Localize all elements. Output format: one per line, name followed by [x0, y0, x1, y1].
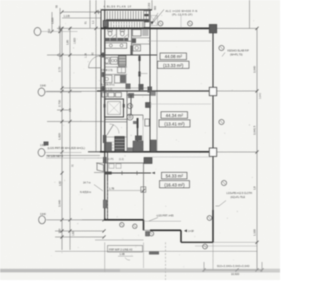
- faint line y221 right of step: [144, 220, 182, 222]
- circle tag bottom a: [120, 223, 124, 227]
- right subroom box B: [133, 45, 141, 51]
- circle tag right a: [219, 45, 224, 50]
- bottom dim ext a: [203, 262, 205, 272]
- ext line y12: [62, 11, 101, 13]
- extension line above core wall: [104, 0, 106, 10]
- elevator car inner: [108, 102, 121, 115]
- wall x143.5 lower room: [143, 163, 145, 220]
- scan shadow band bottom: [0, 269, 280, 273]
- dimension line left x62: [61, 27, 63, 250]
- leader LGS bottom: [149, 218, 158, 222]
- wall y173 small room: [105, 172, 151, 174]
- dashed x107: [107, 181, 109, 220]
- ext y28.4 right: [213, 27, 257, 29]
- wall y28.4 full: [101, 27, 213, 29]
- dimension line left x70: [69, 27, 71, 250]
- wall core top y10: [101, 9, 152, 11]
- gray marks right of box A: [142, 30, 148, 37]
- dim tick right: [255, 241, 258, 244]
- light line y240 bottom-left: [95, 239, 144, 241]
- arrowhead y55 left: [57, 53, 60, 55]
- dim tick: [60, 10, 63, 13]
- arrow at right end of wall y173: [152, 172, 156, 174]
- dim tick: [50, 30, 53, 33]
- wall core left x101: [100, 10, 102, 152]
- white box on corridor wall y119: [145, 119, 150, 126]
- bottom dimension line y270: [204, 269, 262, 271]
- leader line top annotation: [154, 10, 165, 23]
- dim tick: [60, 108, 63, 111]
- ext y242.3 right: [213, 241, 257, 243]
- toilet stall wall b: [128, 29, 130, 38]
- underline net text: [46, 157, 104, 159]
- column box x213 y148.0: [209, 148, 216, 156]
- toilet fixture 2: [120, 31, 124, 36]
- grid line y220 left: [47, 219, 104, 221]
- faint line y104 room2: [150, 103, 211, 105]
- door arc lower room: [110, 124, 120, 134]
- corridor band line y163: [105, 162, 152, 164]
- lower-left box with circle: [104, 75, 113, 82]
- wall corridor right x157: [156, 28, 158, 152]
- small marks x133 y121: [133, 121, 137, 124]
- ext y91 right: [213, 90, 257, 92]
- dim tick: [68, 53, 71, 56]
- door jamb tick x122: [121, 171, 123, 175]
- dark marks left edge: [130, 46, 132, 55]
- basin 1: [109, 44, 112, 47]
- column box x213 top dark: [209, 25, 216, 33]
- ext line y88: [62, 87, 150, 89]
- dim tick: [60, 218, 63, 221]
- dim tick: [60, 150, 63, 153]
- circle tag right b: [219, 119, 224, 124]
- dark segment on wall x104 y200: [103, 200, 106, 208]
- faint vertical leader x181: [180, 14, 182, 28]
- EV door marks: [104, 104, 106, 108]
- paper grain noise: [0, 0, 1, 1]
- circle tag bottom c: [149, 232, 153, 236]
- wall x131: [130, 95, 132, 115]
- circle tag near top wall: [158, 21, 163, 26]
- ext line y28.4 left: [57, 27, 101, 29]
- tick line y110: [57, 109, 70, 111]
- dark blob y83 x125: [126, 84, 131, 90]
- ext y152 right: [213, 151, 257, 153]
- corridor segment y91: [151, 92, 156, 96]
- ext below x104.7: [104, 242, 106, 272]
- dark fitting band under stalls: [105, 38, 129, 41]
- circle tag top mid: [188, 21, 193, 26]
- wall y91: [97, 90, 213, 92]
- subroom line y37.8: [132, 37, 151, 39]
- circle tag bottom d: [207, 216, 212, 221]
- area label room2 tsubo: [159, 120, 190, 127]
- ext line y172.5 short: [94, 172, 104, 174]
- leader right annotation1: [222, 53, 225, 57]
- area label room2 m2: [161, 112, 188, 119]
- dim tick right: [255, 150, 258, 153]
- door arc exterior left: [89, 56, 102, 68]
- light vertical x143.5 bottom: [143, 243, 145, 269]
- dim tick: [60, 235, 63, 238]
- stair dark block left: [103, 21, 108, 28]
- area label room1 tsubo: [158, 61, 190, 68]
- circle tag EV b (double): [127, 114, 133, 120]
- faint box above y163 b: [116, 164, 121, 169]
- dim tick: [60, 171, 63, 174]
- wall right x213: [212, 28, 214, 210]
- toilet stall wall a: [116, 29, 118, 38]
- staircase upper flight: [105, 11, 149, 19]
- small box y67: [118, 67, 126, 73]
- grid line y121.5: [47, 121, 104, 123]
- wall y152: [100, 151, 213, 153]
- dim line y231: [55, 230, 104, 232]
- small dark box x146 y103: [146, 103, 151, 108]
- partition line y119.3: [105, 118, 127, 120]
- wall dark segment y176: [105, 172, 112, 175]
- dim tick: [60, 53, 63, 56]
- stair landing dark dash a: [144, 14, 149, 16]
- light line y73.5 right of kitchen: [140, 73, 148, 75]
- area label room3 tsubo: [160, 181, 190, 188]
- wall stub y152 left: [88, 151, 100, 153]
- leader right annotation2: [219, 201, 226, 207]
- dimension line right x257: [256, 28, 258, 270]
- dim tick: [68, 218, 71, 221]
- toilet fixture 1: [108, 31, 112, 36]
- vanity counter: [105, 43, 127, 49]
- wall y55 core: [101, 54, 157, 56]
- dim tick: [94, 10, 97, 13]
- wall dark segment x101 y72: [102, 72, 106, 77]
- grid line y91 left: [46, 90, 101, 92]
- dim tick: [94, 27, 97, 30]
- door jamb tick x137: [136, 171, 138, 175]
- line y95 right of EV: [127, 94, 150, 96]
- cross mark: [97, 11, 101, 13]
- grid line y55 left: [47, 54, 104, 56]
- corridor segment y140: [151, 140, 157, 152]
- wall dark segment x104 y158: [103, 157, 107, 163]
- dim tick right: [255, 268, 258, 271]
- stair up arrow: [112, 23, 132, 25]
- text blob y147: [128, 148, 134, 152]
- dim 1.7B line: [108, 190, 144, 192]
- subroom line y44: [132, 43, 151, 45]
- small filled triangle marker: [151, 22, 154, 25]
- ext line y163 short: [96, 162, 104, 164]
- faint line y41 room1: [148, 40, 211, 42]
- wall core left inner x104.7: [104, 10, 106, 220]
- right subroom box A: [133, 30, 142, 37]
- dark blob y135: [135, 136, 142, 141]
- toilet tank 2: [120, 30, 124, 32]
- dim tick: [60, 120, 63, 123]
- stair landing right box: [144, 11, 150, 27]
- staircase mid rail dark bar: [106, 19, 149, 21]
- dim tick: [68, 90, 71, 93]
- short wall x143 y115-120: [142, 115, 144, 120]
- door gap y230: [144, 229, 151, 231]
- faint line y157 room3: [152, 156, 211, 158]
- staircase lower flight: [106, 22, 145, 28]
- column box x213 y87.3: [209, 87, 216, 95]
- core partition x127: [126, 90, 128, 152]
- dark blob y84 left: [139, 84, 144, 90]
- bottom-left note box: [108, 246, 143, 253]
- faint vertical x143: [142, 120, 144, 152]
- dark mark band: [44, 142, 49, 146]
- toilet partition line y41: [105, 40, 132, 42]
- grid bubble Y1: [34, 28, 77, 36]
- area label room1 m2: [160, 53, 187, 60]
- extension line x96: [95, 0, 97, 152]
- dim tick: [99, 53, 102, 56]
- faint hatch left of strip: [106, 142, 114, 151]
- underline 1.0B: [118, 255, 133, 257]
- scan speckles: [47, 13, 255, 268]
- dimension line left x52 top: [51, 12, 53, 32]
- dim tick: [68, 120, 71, 123]
- grid bubble Y2: [38, 88, 81, 96]
- faint box above y163 a: [109, 164, 114, 169]
- wall step vertical x181: [180, 230, 182, 242]
- dim tick: [102, 235, 105, 238]
- dark blob below step gap: [146, 232, 150, 237]
- kitchen line y74: [105, 73, 127, 75]
- wall x139.5 kitchen-right: [139, 55, 141, 91]
- wall y242.3: [181, 241, 213, 243]
- dim tick: [68, 27, 71, 30]
- dim tick: [68, 229, 71, 232]
- small curl mark: [125, 258, 130, 261]
- circle tag right c: [221, 180, 226, 185]
- dashed line x165.5 bottom: [165, 242, 167, 280]
- ext line y18: [62, 17, 101, 19]
- wall dark segment x101 y52: [102, 53, 106, 58]
- dim line y237: [55, 236, 104, 238]
- kitchen shelf cluster: [119, 56, 127, 66]
- partition line y121.8: [105, 121, 127, 123]
- faint y246 right: [195, 245, 257, 247]
- wall dark segment x101 y86: [102, 86, 106, 91]
- ext below x213: [212, 242, 214, 270]
- hoist box with X brace (faint): [151, 16, 158, 26]
- dim tick: [102, 218, 105, 221]
- elevator shaft outer: [105, 99, 124, 117]
- wall inner leaf x107.5 lower: [107, 152, 109, 220]
- circle tag EV a: [127, 103, 132, 108]
- stall doors: [112, 35, 116, 38]
- circle tag bottom e: [203, 244, 208, 249]
- stair landing dark dash b: [144, 19, 149, 22]
- wall right x213 dark lower: [212, 210, 214, 242]
- dim tick: [58, 30, 61, 33]
- dark bit right of lockers: [128, 93, 134, 98]
- door trapezoid: [97, 163, 104, 172]
- dim tick: [60, 229, 63, 232]
- dark dash x149 y252: [149, 252, 159, 255]
- locker row: [102, 93, 107, 98]
- lower cluster dark right: [115, 75, 127, 83]
- faint line y251: [55, 250, 257, 252]
- wall core right x150: [149, 10, 151, 152]
- dark hatched strip core bottom: [115, 137, 125, 153]
- wall dark segment x104 y135: [103, 135, 107, 143]
- light line y137: [105, 136, 127, 138]
- wall y220 bottom-left: [104, 219, 144, 221]
- dark cluster y38: [132, 39, 136, 44]
- line y115: [127, 114, 143, 116]
- kitchen line y67: [105, 66, 127, 68]
- underline above core: [100, 8, 152, 10]
- dim tick right: [255, 27, 258, 30]
- basin 2: [120, 44, 123, 47]
- dense block band c: [133, 141, 143, 152]
- leader small room: [94, 185, 103, 192]
- circle tag bottom b: [133, 224, 137, 228]
- dimension line left x60 top: [59, 8, 61, 60]
- wall step vertical x143.5: [143, 220, 145, 231]
- dark blob y86 right: [148, 87, 153, 93]
- ext line x152 top: [151, 0, 153, 10]
- dim tick: [102, 229, 105, 232]
- grid line y155 left: [47, 155, 100, 157]
- wall y230.3: [150, 229, 181, 231]
- small box on x143 wall: [141, 187, 146, 193]
- kitchen sink fixture: [104, 58, 109, 65]
- extension line x90 top: [89, 0, 91, 28]
- dark box y158 corridor band: [144, 158, 152, 164]
- grid bubble Y4: [39, 216, 82, 224]
- kitchen stove unit: [111, 57, 118, 64]
- heavy wall x137.5: [137, 118, 139, 152]
- dim tick: [60, 90, 63, 93]
- dim tick: [60, 27, 63, 30]
- arrow marker 1-3F: [184, 229, 187, 232]
- toilet tank 1: [108, 30, 112, 32]
- dense block band a: [106, 143, 112, 152]
- toilet block right partition: [131, 29, 133, 55]
- extension line top right: [249, 0, 251, 28]
- dim tick: [60, 86, 63, 89]
- dim tick right: [255, 89, 258, 92]
- area label room3 m2: [162, 172, 188, 179]
- bottom dim ext b: [261, 262, 263, 272]
- grid bubble Y3: [38, 149, 81, 157]
